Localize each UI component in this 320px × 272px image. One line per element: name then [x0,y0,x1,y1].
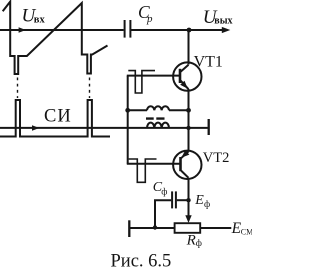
svg-text:ф: ф [196,238,202,249]
svg-text:СМ: СМ [241,228,252,237]
svg-text:ф: ф [204,199,210,210]
svg-text:вых: вых [214,15,232,26]
svg-text:E: E [194,193,204,208]
svg-text:вх: вх [34,15,46,26]
svg-text:Рис. 6.5: Рис. 6.5 [111,251,172,271]
svg-text:VT1: VT1 [194,53,223,70]
svg-text:VT2: VT2 [203,150,230,166]
svg-text:p: p [146,13,153,25]
svg-text:ф: ф [161,187,167,198]
svg-text:R: R [186,233,196,249]
svg-text:СИ: СИ [44,107,72,127]
